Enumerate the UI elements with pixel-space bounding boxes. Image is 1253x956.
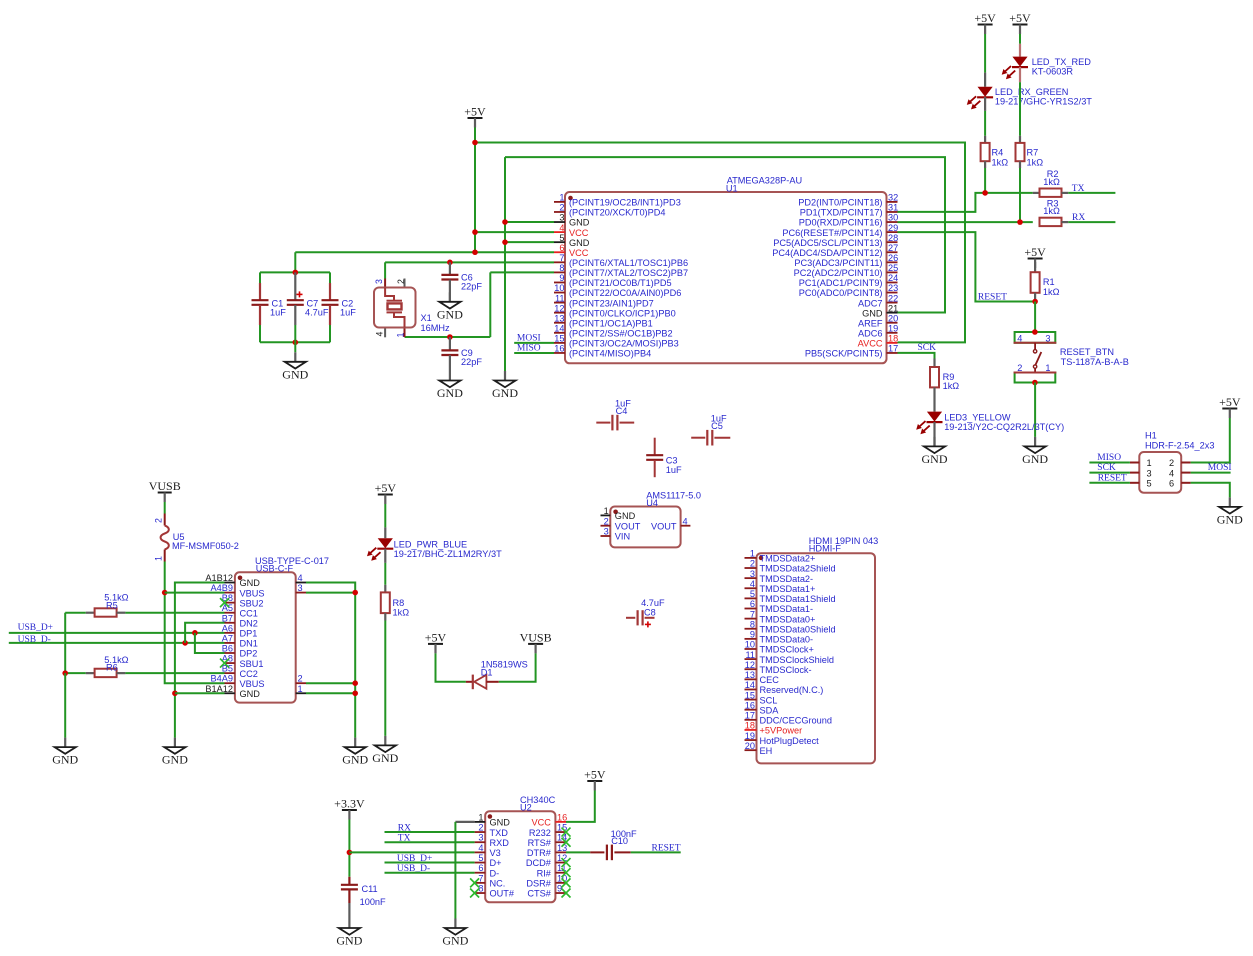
wire R6 to CC2 — [125, 672, 224, 674]
svg-text:H1: H1 — [1145, 430, 1157, 440]
power +5V (RX led) — [974, 11, 996, 34]
capacitor C3 — [646, 438, 682, 478]
net label MOSI (H1) — [1208, 463, 1232, 473]
svg-text:16: 16 — [745, 700, 755, 710]
svg-text:11: 11 — [745, 650, 755, 660]
wire +5V to D1 — [436, 653, 466, 681]
svg-text:22pF: 22pF — [461, 357, 482, 367]
capacitor C1 — [252, 272, 287, 342]
svg-text:TMDSData0Shield: TMDSData0Shield — [760, 624, 836, 634]
svg-text:5: 5 — [478, 853, 483, 863]
svg-text:TS-1187A-B-A-B: TS-1187A-B-A-B — [1061, 357, 1129, 367]
wire R5 to CC1 — [125, 612, 224, 614]
svg-text:2: 2 — [1017, 363, 1022, 373]
junction +5V at VCC pin6 — [472, 249, 478, 255]
capacitor C6 — [441, 262, 482, 302]
svg-text:28: 28 — [888, 233, 898, 243]
svg-text:PC1(ADC1/PCINT9): PC1(ADC1/PCINT9) — [799, 278, 883, 288]
svg-text:+5V: +5V — [1009, 11, 1031, 25]
svg-text:GND: GND — [862, 308, 883, 318]
svg-text:C5: C5 — [711, 421, 723, 431]
fuse U5 MF-MSMF050-2 — [154, 514, 239, 562]
svg-text:100nF: 100nF — [360, 897, 386, 907]
junction right pin2 tie — [352, 680, 358, 686]
wire R5 drop — [64, 613, 66, 673]
junction button pin bottom — [1032, 380, 1038, 386]
junction R1 to RESET node — [1032, 299, 1038, 305]
wire GND vertical — [504, 157, 506, 371]
junction VUSB at VBUS row — [162, 590, 168, 596]
svg-text:C8: C8 — [644, 608, 656, 618]
svg-text:SBU2: SBU2 — [240, 598, 264, 608]
svg-text:RESET: RESET — [978, 293, 1007, 303]
svg-text:17: 17 — [745, 711, 755, 721]
wire GND pin B1A12 — [175, 692, 225, 694]
net label MISO (H1) — [1097, 453, 1121, 463]
power +5V (H1) — [1219, 395, 1241, 418]
svg-text:DTR#: DTR# — [527, 848, 552, 858]
svg-text:GND: GND — [240, 578, 261, 588]
ground (below U1) — [492, 371, 518, 400]
resistor R7 — [1016, 136, 1044, 168]
svg-text:Reserved(N.C.): Reserved(N.C.) — [760, 685, 824, 695]
svg-text:RESET: RESET — [1098, 473, 1127, 483]
power +5V (CH340) — [584, 768, 606, 791]
svg-text:19: 19 — [745, 731, 755, 741]
svg-text:MOSI: MOSI — [517, 333, 541, 343]
ground (USB-C GND pins) — [162, 738, 188, 767]
svg-text:PC5(ADC5/SCL/PCINT13): PC5(ADC5/SCL/PCINT13) — [773, 238, 882, 248]
svg-text:8: 8 — [559, 263, 564, 273]
svg-text:5: 5 — [1147, 479, 1152, 489]
svg-text:8: 8 — [478, 884, 483, 894]
power +5V (PWR led) — [375, 481, 397, 504]
svg-text:CEC: CEC — [760, 675, 780, 685]
wire H1 pin2 to +5V — [1191, 418, 1230, 463]
wire USB_D+ to pin5 — [385, 862, 475, 864]
svg-text:13: 13 — [554, 313, 564, 323]
wire DN2 jog — [185, 623, 224, 643]
junction C6 tap on pin7 wire — [447, 260, 453, 266]
svg-text:1uF: 1uF — [270, 307, 286, 317]
ground (below C11) — [336, 919, 362, 948]
LED LED_PWR_BLUE — [367, 504, 502, 585]
ground (H1 pin6) — [1217, 497, 1243, 526]
svg-text:VBUS: VBUS — [240, 588, 265, 598]
svg-text:2: 2 — [478, 823, 483, 833]
svg-text:+5V: +5V — [425, 630, 447, 644]
svg-text:GND: GND — [1022, 452, 1048, 466]
svg-text:RX: RX — [1072, 213, 1085, 223]
svg-text:GND: GND — [492, 386, 518, 400]
junction GND pins tie — [172, 690, 178, 696]
resistor R3 — [1040, 198, 1069, 226]
svg-text:HDR-F-2.54_2x3: HDR-F-2.54_2x3 — [1145, 441, 1214, 451]
wire USB_D- to pin6 — [385, 872, 475, 874]
wire D1 to VUSB — [499, 653, 536, 681]
net label USB_D- (left) — [18, 635, 51, 645]
svg-text:19-213/Y2C-CQ2R2L/3T(CY): 19-213/Y2C-CQ2R2L/3T(CY) — [944, 422, 1064, 432]
svg-text:C11: C11 — [362, 884, 378, 894]
svg-text:1: 1 — [1147, 458, 1152, 468]
svg-text:16: 16 — [554, 344, 564, 354]
connector USB-TYPE-C-017 (USB-C-F) — [205, 556, 329, 703]
svg-text:GND: GND — [490, 818, 511, 828]
svg-text:VCC: VCC — [531, 818, 551, 828]
svg-text:(PCINT23/AIN1)PD7: (PCINT23/AIN1)PD7 — [569, 298, 654, 308]
junction GND at pin3 — [502, 219, 508, 225]
svg-text:26: 26 — [888, 253, 898, 263]
ground (below C1 C7 C2) — [282, 352, 308, 381]
wire DP2 jog — [195, 633, 225, 653]
net label RESET (U2) — [652, 843, 681, 853]
svg-text:19-217/BHC-ZL1M2RY/3T: 19-217/BHC-ZL1M2RY/3T — [394, 549, 502, 559]
resistor R2 — [1033, 169, 1069, 197]
wire RXD pin30 — [898, 221, 1033, 223]
svg-text:14: 14 — [745, 680, 755, 690]
microcontroller U1 ATMEGA328P-AU — [554, 176, 898, 364]
svg-text:4: 4 — [750, 579, 755, 589]
svg-text:TMDSData2Shield: TMDSData2Shield — [760, 564, 836, 574]
svg-text:16MHz: 16MHz — [421, 323, 451, 333]
svg-text:GND: GND — [342, 753, 368, 767]
svg-text:ADC6: ADC6 — [858, 329, 883, 339]
svg-text:GND: GND — [162, 753, 188, 767]
svg-text:DP2: DP2 — [240, 649, 258, 659]
wire DTR to C10 — [566, 851, 590, 853]
wire XTAL2 drop — [489, 272, 491, 337]
svg-text:RXD: RXD — [490, 838, 510, 848]
ground (below LED3) — [922, 437, 948, 466]
capacitor C2 — [322, 272, 357, 342]
wire R4 to TX row — [984, 168, 986, 193]
svg-text:4: 4 — [478, 843, 483, 853]
wire C10 to RESET — [631, 851, 681, 853]
svg-text:+5V: +5V — [375, 481, 397, 495]
wire SCK pin17 — [898, 353, 935, 359]
ground (below C9) — [437, 371, 463, 400]
wire XTAL1 pin7 — [385, 261, 554, 263]
svg-text:TMDSClock-: TMDSClock- — [760, 665, 812, 675]
svg-text:CC1: CC1 — [240, 608, 258, 618]
svg-text:DP1: DP1 — [240, 629, 258, 639]
svg-text:+5V: +5V — [1024, 245, 1046, 259]
svg-text:D+: D+ — [490, 858, 502, 868]
ground (below RESET_BTN) — [1022, 437, 1048, 466]
svg-text:PC2(ADC2/PCINT10): PC2(ADC2/PCINT10) — [794, 268, 883, 278]
svg-text:3: 3 — [298, 583, 303, 593]
svg-text:2: 2 — [750, 559, 755, 569]
svg-text:GND: GND — [282, 367, 308, 381]
net label RX (U2) — [398, 823, 411, 833]
power VUSB (D1) — [520, 630, 552, 653]
svg-text:5: 5 — [559, 233, 564, 243]
svg-text:EH: EH — [760, 746, 773, 756]
svg-text:+5V: +5V — [1219, 395, 1241, 409]
junction V3 tap — [347, 850, 353, 856]
LED LED_RX_GREEN — [967, 34, 1093, 111]
wire GND to pin21 loop — [505, 157, 945, 312]
svg-text:MISO: MISO — [517, 343, 541, 353]
wire RESET from pin29 — [898, 232, 1036, 301]
svg-text:TMDSData0-: TMDSData0- — [760, 635, 814, 645]
svg-text:22pF: 22pF — [461, 282, 482, 292]
wire XTAL1 drop — [384, 262, 386, 278]
junction C9 tap on crystal rail — [447, 334, 453, 340]
svg-text:VBUS: VBUS — [240, 679, 265, 689]
svg-text:DCD#: DCD# — [526, 858, 552, 868]
svg-text:C10: C10 — [611, 836, 628, 846]
svg-text:3: 3 — [750, 569, 755, 579]
wire USB_D+ net — [9, 632, 225, 634]
resistor R6 — [65, 655, 128, 677]
svg-text:MOSI: MOSI — [1208, 463, 1232, 473]
svg-text:+5V: +5V — [464, 105, 486, 119]
wire caps rail drop — [294, 252, 296, 272]
wire crystal bottom rail — [405, 336, 491, 338]
resistor R4 — [981, 111, 1009, 168]
wire cap rail bottom — [260, 341, 330, 343]
junction +5V at VCC pin4 — [472, 229, 478, 235]
svg-text:(PCINT7/XTAL2/TOSC2)PB7: (PCINT7/XTAL2/TOSC2)PB7 — [569, 268, 688, 278]
svg-text:5: 5 — [750, 589, 755, 599]
junction right pin1 tie — [352, 690, 358, 696]
svg-text:15: 15 — [745, 690, 755, 700]
net label SCK (H1) — [1097, 463, 1116, 473]
net label USB_D+ (U2) — [397, 854, 432, 864]
wire R8 to ground — [384, 621, 386, 736]
wire VCC pin4 — [475, 231, 554, 233]
svg-text:4: 4 — [559, 223, 564, 233]
svg-text:GND: GND — [569, 218, 590, 228]
svg-text:TMDSData1Shield: TMDSData1Shield — [760, 594, 836, 604]
svg-text:HotPlugDetect: HotPlugDetect — [760, 736, 820, 746]
connector H1 HDR-F-2.54_2x3 — [1130, 430, 1215, 492]
svg-text:2: 2 — [604, 516, 609, 526]
diode D1 1N5819WS — [466, 660, 528, 690]
svg-text:18: 18 — [745, 721, 755, 731]
svg-text:PD1(TXD/PCINT17): PD1(TXD/PCINT17) — [800, 208, 883, 218]
junction R5 R6 gnd tie — [62, 670, 68, 676]
voltage regulator U4 AMS1117-5.0 — [601, 491, 702, 548]
svg-text:SCL: SCL — [760, 695, 778, 705]
svg-text:2: 2 — [1169, 458, 1174, 468]
svg-text:2: 2 — [154, 518, 164, 523]
svg-text:PC3(ADC3/PCINT11): PC3(ADC3/PCINT11) — [794, 258, 882, 268]
svg-text:12: 12 — [554, 303, 564, 313]
junction USB_D+ split — [192, 630, 198, 636]
svg-text:1: 1 — [395, 333, 405, 338]
svg-text:B1A12: B1A12 — [205, 684, 233, 694]
svg-text:USB-C-F: USB-C-F — [256, 564, 294, 574]
svg-text:1kΩ: 1kΩ — [1043, 177, 1060, 187]
svg-text:SDA: SDA — [760, 705, 780, 715]
wire GND pin5 — [505, 241, 554, 243]
svg-text:1: 1 — [750, 549, 755, 559]
ground (USB-C shield side) — [342, 738, 368, 767]
net label MOSI (U1) — [517, 333, 541, 343]
wire pin1 GND link — [455, 822, 474, 919]
svg-text:SCK: SCK — [918, 343, 937, 353]
svg-text:X1: X1 — [421, 313, 432, 323]
svg-text:6: 6 — [478, 863, 483, 873]
svg-text:RTS#: RTS# — [528, 838, 552, 848]
svg-text:B7: B7 — [222, 613, 233, 623]
wire MOSI pin15 — [514, 342, 554, 344]
USB-serial U2 CH340C — [470, 795, 570, 902]
svg-text:D-: D- — [490, 868, 500, 878]
svg-text:4: 4 — [298, 573, 303, 583]
svg-text:3: 3 — [604, 527, 609, 537]
svg-text:DN1: DN1 — [240, 639, 258, 649]
svg-text:ATMEGA328P-AU: ATMEGA328P-AU — [727, 176, 802, 186]
wire RESET to H1 pin5 — [1089, 482, 1130, 484]
junction button pin top — [1032, 329, 1038, 335]
net label USB_D- (U2) — [397, 864, 430, 874]
wire VUSB to fuse — [164, 502, 166, 514]
svg-text:(PCINT19/OC2B/INT1)PD3: (PCINT19/OC2B/INT1)PD3 — [569, 198, 681, 208]
svg-text:GND: GND — [442, 934, 468, 948]
capacitor C9 — [441, 337, 482, 371]
wire R7 to RX row — [1019, 168, 1021, 222]
svg-text:7: 7 — [750, 609, 755, 619]
svg-text:23: 23 — [888, 283, 898, 293]
svg-text:GND: GND — [240, 689, 261, 699]
wire R1 to button — [1034, 302, 1036, 333]
svg-text:+5VPower: +5VPower — [760, 726, 803, 736]
svg-text:MISO: MISO — [1097, 453, 1121, 463]
svg-text:GND: GND — [336, 934, 362, 948]
svg-text:GND: GND — [922, 452, 948, 466]
svg-text:4: 4 — [374, 332, 384, 337]
resistor R5 — [65, 593, 128, 617]
svg-text:U1: U1 — [726, 183, 738, 193]
svg-text:7: 7 — [559, 253, 564, 263]
svg-text:1: 1 — [154, 556, 164, 561]
pushbutton RESET_BTN TS-1187A-B-A-B — [1014, 332, 1129, 383]
wire VCC pin6 to caps — [295, 251, 554, 253]
svg-text:VOUT: VOUT — [615, 521, 641, 531]
wire SCK to H1 pin3 — [1089, 472, 1130, 474]
svg-text:VUSB: VUSB — [149, 479, 181, 493]
svg-text:TMDSData0+: TMDSData0+ — [760, 614, 816, 624]
net label MISO (U1) — [517, 343, 541, 353]
svg-text:3: 3 — [1045, 333, 1050, 343]
junction R7 on RX wire — [1017, 219, 1023, 225]
svg-text:(PCINT0/CLKO/ICP1)PB0: (PCINT0/CLKO/ICP1)PB0 — [569, 308, 676, 318]
svg-text:22: 22 — [888, 293, 898, 303]
svg-text:4: 4 — [1017, 333, 1022, 343]
svg-text:1: 1 — [1045, 363, 1050, 373]
svg-text:29: 29 — [888, 223, 898, 233]
wire XTAL2 pin8 — [490, 271, 554, 273]
svg-text:1uF: 1uF — [340, 307, 356, 317]
svg-text:VIN: VIN — [615, 532, 630, 542]
capacitor C7 (polarized) — [287, 272, 329, 342]
svg-text:ADC7: ADC7 — [858, 298, 883, 308]
svg-text:TMDSData1-: TMDSData1- — [760, 604, 814, 614]
wire TXD pin31 jog — [898, 193, 1033, 212]
capacitor C8 (polarized) — [626, 598, 665, 627]
svg-text:11: 11 — [555, 293, 565, 303]
svg-text:+5V: +5V — [584, 768, 606, 782]
svg-text:RI#: RI# — [537, 868, 552, 878]
svg-text:13: 13 — [557, 843, 567, 853]
net label TX (U2) — [398, 834, 411, 844]
svg-text:1kΩ: 1kΩ — [1043, 206, 1060, 216]
svg-text:10: 10 — [745, 640, 755, 650]
svg-text:AVCC: AVCC — [858, 339, 883, 349]
svg-text:GND: GND — [1217, 512, 1243, 526]
wire MISO pin16 — [514, 352, 554, 354]
svg-text:RESET: RESET — [652, 843, 681, 853]
svg-text:12: 12 — [745, 660, 755, 670]
svg-text:3: 3 — [1147, 468, 1152, 478]
svg-text:C4: C4 — [616, 406, 628, 416]
net label TX — [1072, 184, 1085, 194]
svg-text:A7: A7 — [222, 633, 233, 643]
svg-text:LED3_YELLOW: LED3_YELLOW — [944, 413, 1011, 423]
svg-text:GND: GND — [52, 753, 78, 767]
svg-text:1: 1 — [604, 506, 609, 516]
wire MISO to H1 pin1 — [1089, 462, 1130, 464]
power +5V (R1) — [1024, 245, 1046, 268]
svg-text:16: 16 — [557, 812, 567, 822]
svg-text:GND: GND — [569, 238, 590, 248]
svg-text:NC.: NC. — [490, 879, 506, 889]
wire TX to pin3 — [385, 841, 475, 843]
svg-text:32: 32 — [888, 193, 898, 203]
LED LED_TX_RED — [1002, 34, 1092, 136]
svg-text:KT-0603R: KT-0603R — [1032, 66, 1074, 76]
capacitor C5 — [691, 414, 730, 446]
svg-text:AREF: AREF — [858, 318, 883, 328]
svg-text:1kΩ: 1kΩ — [943, 381, 960, 391]
wire GND pins tie — [175, 583, 225, 738]
resistor R9 — [930, 359, 959, 412]
power +3.3V — [334, 797, 365, 820]
svg-text:DDC/CECGround: DDC/CECGround — [760, 716, 833, 726]
svg-text:1: 1 — [298, 684, 303, 694]
svg-text:31: 31 — [888, 203, 898, 213]
wire H1 pin6 to ground — [1191, 483, 1230, 498]
ground (R5 R6) — [52, 738, 78, 767]
power VUSB (fuse) — [149, 479, 181, 502]
svg-text:VCC: VCC — [569, 248, 589, 258]
svg-text:(PCINT2/SS#/OC1B)PB2: (PCINT2/SS#/OC1B)PB2 — [569, 329, 673, 339]
svg-text:R8: R8 — [393, 598, 405, 608]
svg-text:B4A9: B4A9 — [211, 674, 233, 684]
svg-text:3: 3 — [478, 833, 483, 843]
svg-text:1kΩ: 1kΩ — [393, 607, 410, 617]
svg-text:B6: B6 — [222, 643, 233, 653]
svg-text:OUT#: OUT# — [490, 889, 515, 899]
svg-text:+3.3V: +3.3V — [334, 797, 365, 811]
svg-text:GND: GND — [615, 511, 636, 521]
wire +5V to AVCC loop — [475, 143, 965, 343]
svg-text:19-217/GHC-YR1S2/3T: 19-217/GHC-YR1S2/3T — [995, 96, 1092, 106]
wire caps to ground — [294, 342, 296, 352]
svg-text:A6: A6 — [222, 623, 233, 633]
wire V3 pin4 — [349, 851, 474, 853]
svg-text:4.7uF: 4.7uF — [305, 307, 329, 317]
wire USB right pin4 — [306, 583, 355, 738]
svg-text:(PCINT1/OC1A)PB1: (PCINT1/OC1A)PB1 — [569, 318, 653, 328]
connector HDMI-F (HDMI 19PIN 043) — [745, 536, 879, 764]
svg-text:SCK: SCK — [1097, 463, 1116, 473]
svg-text:V3: V3 — [490, 848, 501, 858]
svg-text:18: 18 — [888, 334, 898, 344]
